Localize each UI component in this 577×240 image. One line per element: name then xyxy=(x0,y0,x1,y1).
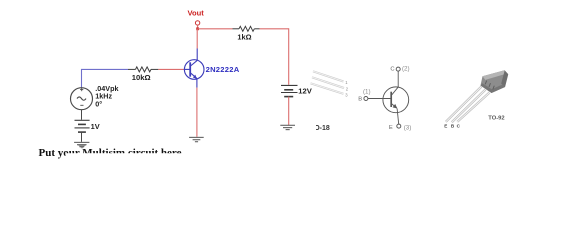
wire battery V3 to ground xyxy=(81,132,83,142)
clip mask over TO-18 label xyxy=(313,123,317,132)
svg-text:10kΩ: 10kΩ xyxy=(132,73,151,82)
TO-18 package lead 1 xyxy=(313,71,344,81)
wire battery V2 to ground xyxy=(288,97,290,125)
ground under battery V2 xyxy=(280,125,295,129)
battery V3 1V symbol xyxy=(75,120,90,132)
battery V2 12V symbol xyxy=(281,85,298,96)
AC source V1 symbol xyxy=(71,88,93,110)
svg-text:E: E xyxy=(444,123,447,128)
wire R2 to corner xyxy=(260,28,289,30)
svg-text:1kΩ: 1kΩ xyxy=(237,33,251,42)
wire emitter red segment Q1 to ground xyxy=(196,88,198,137)
wire corner down to battery V2 xyxy=(288,28,290,85)
resistor R1 10kOhm symbol xyxy=(128,67,158,72)
svg-text:(3): (3) xyxy=(404,124,412,131)
TO-92 package leg E xyxy=(446,87,482,122)
ground under emitter of Q1 xyxy=(189,137,204,141)
svg-text:E: E xyxy=(389,125,393,131)
svg-text:TO-92: TO-92 xyxy=(488,115,504,121)
pinout pin B terminal xyxy=(364,97,368,101)
TO-18 package lead 2 xyxy=(312,77,344,88)
TO-92 package leg B xyxy=(452,90,486,123)
TO-18 package lead 3 xyxy=(311,83,344,94)
wire blue from source V1 to R1 xyxy=(82,69,129,87)
svg-text:(1): (1) xyxy=(363,88,371,95)
TO-92 package body xyxy=(481,70,509,93)
svg-text:12V: 12V xyxy=(298,87,312,96)
pinout diagram transistor circle xyxy=(368,71,409,124)
svg-text:B: B xyxy=(358,97,362,103)
ground under battery V3 xyxy=(74,142,89,148)
pinout pin E terminal xyxy=(397,124,401,128)
TO-92 package leg C xyxy=(457,93,489,122)
white overlay clipping caption bottom xyxy=(66,153,214,165)
svg-text:(2): (2) xyxy=(402,66,410,73)
svg-text:1V: 1V xyxy=(91,122,100,131)
wire junction to R2 xyxy=(198,28,233,30)
svg-text:2N2222A: 2N2222A xyxy=(206,65,240,74)
svg-text:0°: 0° xyxy=(95,99,102,108)
wire V1 to battery V3 xyxy=(81,110,83,120)
terminal Vout pin xyxy=(195,21,199,25)
svg-text:Vout: Vout xyxy=(188,8,205,17)
transistor Q1 2N2222A xyxy=(184,49,204,88)
pinout pin C terminal xyxy=(396,67,400,71)
resistor R2 1kOhm symbol xyxy=(233,26,260,31)
junction collector node xyxy=(196,27,199,30)
wire Vout pin to junction xyxy=(197,25,199,29)
wire collector red segment xyxy=(196,29,198,49)
svg-text:O-18: O-18 xyxy=(314,125,330,132)
wire base red segment from R1 to Q1 xyxy=(158,68,183,70)
svg-text:C: C xyxy=(390,66,394,72)
